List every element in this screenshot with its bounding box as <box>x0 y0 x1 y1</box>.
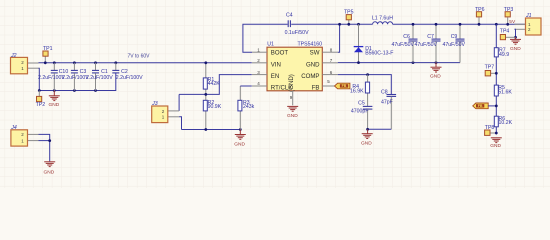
svg-text:C6: C6 <box>403 34 410 40</box>
svg-text:47uF/50V: 47uF/50V <box>392 42 415 48</box>
ground GND left rail <box>49 91 60 109</box>
svg-text:EN: EN <box>271 73 279 80</box>
capacitor C4 <box>285 13 309 36</box>
wire BOOT riser to C4 <box>243 24 288 52</box>
node bottom rail junction R3/GND <box>239 128 242 131</box>
wire VIN rail <box>39 62 252 64</box>
svg-text:L1 7.6uH: L1 7.6uH <box>372 16 393 22</box>
svg-text:(GND): (GND) <box>288 74 295 92</box>
connector J2 <box>10 53 39 74</box>
inductor L1 <box>372 16 393 25</box>
svg-text:J4: J4 <box>10 125 17 131</box>
ground GND output caps <box>430 63 442 80</box>
node VIN junction R1 <box>204 61 207 64</box>
svg-text:C4: C4 <box>286 13 293 19</box>
resistor R4 <box>350 75 370 107</box>
ground GND R3 <box>234 130 246 148</box>
svg-text:7V to 60V: 7V to 60V <box>128 53 151 59</box>
node VIN junction C10 <box>53 61 56 64</box>
svg-text:TP1: TP1 <box>43 46 53 52</box>
test point TP1 <box>43 46 53 63</box>
capacitor C7 <box>415 24 441 62</box>
node junction TP7 <box>495 72 498 75</box>
diode D1 <box>354 24 394 62</box>
svg-text:GND: GND <box>234 142 245 148</box>
pin 6 COMP <box>322 70 338 75</box>
resistor R6 <box>494 116 512 127</box>
svg-text:J1: J1 <box>525 13 532 19</box>
capacitor C1 <box>86 63 113 91</box>
node junction TP4 <box>514 36 517 39</box>
svg-text:TP5: TP5 <box>344 9 354 15</box>
node SW junction TP5 <box>347 23 350 26</box>
svg-text:TP4: TP4 <box>500 28 510 34</box>
pin 7 GND <box>322 58 338 63</box>
net label FB at divider <box>473 103 497 109</box>
pin 9 GND pad <box>290 91 293 106</box>
svg-text:GND: GND <box>490 143 501 149</box>
test point TP4 <box>500 28 516 39</box>
svg-text:GND: GND <box>287 113 298 119</box>
op-amp U1 TPS54160 regulator body <box>267 42 322 92</box>
svg-text:0.1uF/50V: 0.1uF/50V <box>285 30 309 36</box>
net label FB at pin5 <box>335 83 350 89</box>
node 5V junction TP3 <box>506 23 509 26</box>
test point TP6 <box>475 7 485 25</box>
ground GND J1 <box>510 37 521 52</box>
ground GND J4 <box>44 162 56 176</box>
svg-text:10.2K: 10.2K <box>499 120 513 126</box>
resistor R1 <box>203 63 220 95</box>
svg-text:TP2: TP2 <box>36 102 46 108</box>
wire C5/C8 bottom <box>368 128 392 130</box>
wire J3 pin2 riser <box>178 94 180 111</box>
svg-text:U1: U1 <box>267 42 274 48</box>
ground GND feedback divider <box>490 138 502 149</box>
svg-text:4700pF: 4700pF <box>351 109 369 115</box>
pin 5 FB <box>322 79 334 86</box>
svg-text:TP3: TP3 <box>504 7 514 13</box>
pin 2 VIN <box>252 58 267 63</box>
svg-text:C3: C3 <box>80 69 87 75</box>
wire bottom rail J3-R2-R3 <box>182 129 241 131</box>
svg-text:COMP: COMP <box>301 73 319 80</box>
node GND rail junction C7 <box>435 61 438 64</box>
svg-text:C1: C1 <box>101 69 108 75</box>
capacitor C6 <box>392 24 418 62</box>
capacitor C3 <box>62 63 89 91</box>
wire feedback divider chain <box>495 24 497 134</box>
node bottom rail junction C1 <box>94 89 97 92</box>
node junction FB divider <box>495 105 498 108</box>
svg-text:C2: C2 <box>121 69 128 75</box>
ground GND U1 pad <box>287 106 298 119</box>
test point TP5 <box>344 9 354 24</box>
wire GND rail right of U1 <box>338 62 460 64</box>
node 5V junction C6 <box>412 23 415 26</box>
svg-text:2.2uF/100V: 2.2uF/100V <box>116 75 143 81</box>
node junction TP8 <box>495 132 498 135</box>
svg-text:TPS54160: TPS54160 <box>297 42 322 48</box>
svg-text:SW: SW <box>310 50 320 57</box>
node bottom rail junction R2 <box>204 128 207 131</box>
wire J4 pin2 to GND <box>39 134 50 161</box>
svg-text:90.9K: 90.9K <box>208 104 222 110</box>
svg-text:C9: C9 <box>451 34 458 40</box>
svg-text:GND: GND <box>510 46 521 52</box>
svg-text:C7: C7 <box>427 34 434 40</box>
node VIN junction C3 <box>73 61 76 64</box>
wire bottom left rail <box>39 73 116 91</box>
svg-text:J3: J3 <box>151 101 158 107</box>
connector J1 <box>515 13 542 35</box>
wire SW pin riser <box>338 24 340 52</box>
svg-text:C8: C8 <box>381 90 388 96</box>
node bottom rail junction C3 <box>73 89 76 92</box>
capacitor C5 <box>351 101 373 130</box>
pin 4 RT/CLK <box>252 81 267 86</box>
node junction C5 GND <box>366 128 369 131</box>
resistor R2 <box>203 94 221 129</box>
node VIN junction C2 <box>114 61 117 64</box>
svg-text:442K: 442K <box>208 81 221 87</box>
test point TP2 <box>36 91 46 109</box>
wire J4 pin1 <box>39 140 50 142</box>
pin 1 BOOT <box>252 47 267 52</box>
svg-text:GND: GND <box>306 61 320 68</box>
node 5V junction C9 <box>459 23 462 26</box>
node GND rail junction D1 <box>357 61 360 64</box>
svg-text:C5: C5 <box>358 101 365 107</box>
test point TP3 <box>504 7 514 25</box>
svg-text:FB: FB <box>312 85 320 92</box>
svg-text:47uF/50V: 47uF/50V <box>415 42 438 48</box>
svg-text:TP6: TP6 <box>475 7 485 13</box>
test point TP8 <box>485 125 497 136</box>
svg-text:51.6K: 51.6K <box>498 89 512 95</box>
svg-text:FB: FB <box>342 84 347 88</box>
svg-text:BOOT: BOOT <box>271 50 289 57</box>
capacitor C10 <box>38 63 68 91</box>
node J4 junction <box>48 139 51 142</box>
svg-text:GND: GND <box>430 74 441 80</box>
node VIN junction TP1 <box>44 61 47 64</box>
svg-text:J2: J2 <box>10 53 17 59</box>
node 5V junction C7 <box>435 23 438 26</box>
svg-text:16.9K: 16.9K <box>350 89 364 95</box>
node bottom rail junction C10/GND <box>53 89 56 92</box>
svg-text:B560C-13-F: B560C-13-F <box>365 51 393 57</box>
svg-text:243k: 243k <box>243 104 255 110</box>
node SW junction riser <box>338 23 341 26</box>
node GND rail junction C6 <box>412 61 415 64</box>
node bottom rail junction TP2 <box>38 89 41 92</box>
wire 5V output rail <box>393 23 526 25</box>
svg-text:47pF: 47pF <box>381 100 393 106</box>
svg-text:TP8: TP8 <box>485 125 495 131</box>
capacitor C9 <box>443 24 466 62</box>
resistor R5 <box>494 85 512 96</box>
svg-text:GND: GND <box>361 141 372 147</box>
svg-text:2.2uF/100V: 2.2uF/100V <box>86 75 113 81</box>
wire SW rail <box>291 23 372 25</box>
svg-text:TP7: TP7 <box>485 65 495 71</box>
wire J2 pin1 to bottom rail <box>38 68 41 90</box>
pin 3 EN <box>252 70 267 75</box>
wire J1 pin2 to GND <box>515 29 516 37</box>
svg-text:49.9: 49.9 <box>499 52 509 58</box>
test point TP7 <box>485 65 497 76</box>
connector J3 <box>151 101 179 122</box>
svg-text:FB: FB <box>478 104 483 108</box>
svg-text:VIN: VIN <box>271 61 281 68</box>
node COMP junction R4 <box>366 73 369 76</box>
node VIN junction C1 <box>94 61 97 64</box>
svg-text:C10: C10 <box>59 69 69 75</box>
resistor R7 <box>494 47 509 58</box>
ground GND compensation <box>361 129 373 146</box>
wire J3 pin1 to bottom rail <box>179 117 181 130</box>
capacitor C8 <box>381 90 396 130</box>
resistor R3 <box>238 86 255 130</box>
node 5V junction R7 chain <box>495 23 498 26</box>
svg-text:GND: GND <box>49 102 60 108</box>
wire EN net: pin3 to divider <box>179 75 252 95</box>
connector J4 <box>10 125 38 146</box>
pin 8 SW <box>322 47 338 52</box>
node EN junction R1/R2 <box>204 93 207 96</box>
node SW junction D1 <box>357 23 360 26</box>
wire COMP net <box>338 75 392 95</box>
capacitor C2 <box>112 63 143 81</box>
svg-text:47uF/50V: 47uF/50V <box>443 42 466 48</box>
svg-text:GND: GND <box>44 170 55 176</box>
wire RT/CLK to R3 <box>240 85 252 87</box>
node 5V junction TP6 <box>478 23 481 26</box>
